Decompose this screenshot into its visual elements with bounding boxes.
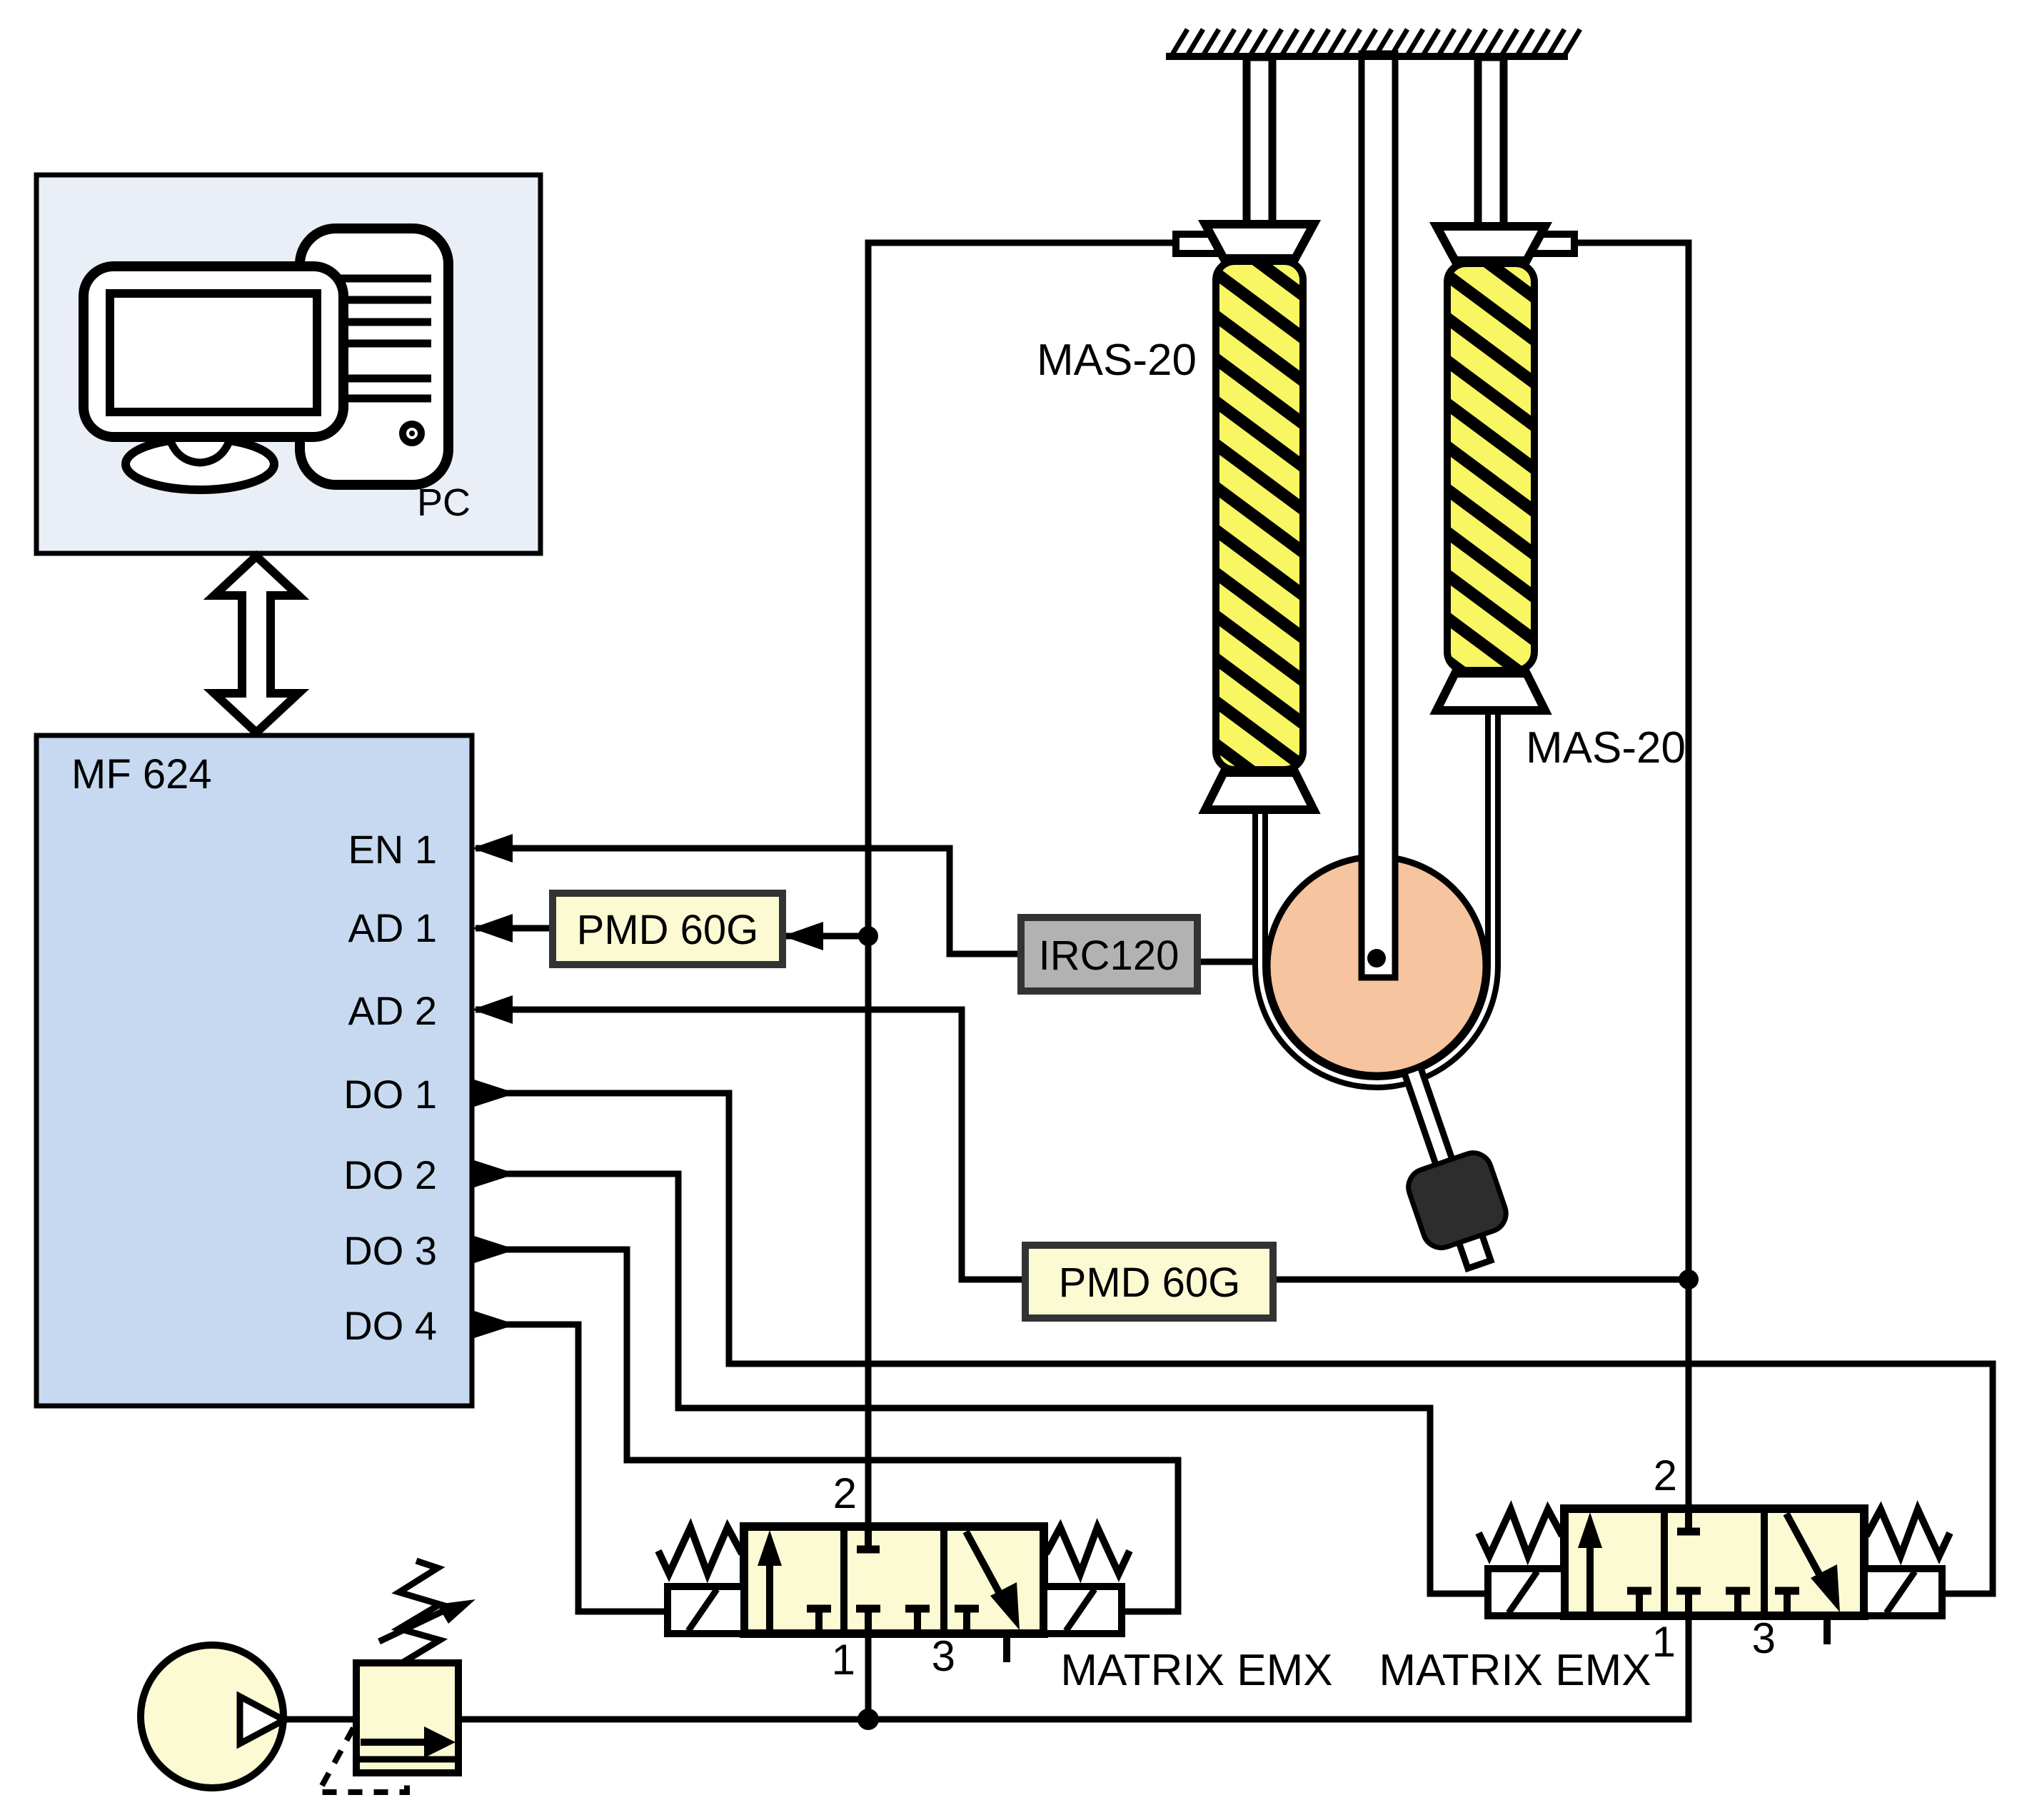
- wire: right tube tap to PMD 60G #2: [1273, 1277, 1689, 1283]
- main supply line from regulator to right valve port 1: [458, 1616, 1689, 1719]
- IRC120 encoder box: [1021, 917, 1197, 991]
- pneumatic muscle MAS-20 (right): [1437, 57, 1574, 730]
- wire: PMD 60G #2 to AD 2: [476, 1010, 1025, 1279]
- compressor: [141, 1645, 284, 1788]
- pulley disc: [1267, 857, 1486, 1075]
- svg-text:EN 1: EN 1: [348, 827, 438, 872]
- pneumatic muscle MAS-20 (left): [1176, 57, 1314, 857]
- svg-text:IRC120: IRC120: [1039, 932, 1179, 979]
- svg-text:DO 2: DO 2: [343, 1152, 437, 1197]
- pulley belt / rope around pulley: [1255, 710, 1498, 1087]
- wire DO 3 to left valve right solenoid: [472, 1250, 1178, 1612]
- MF 624 port labels EN1 AD1 AD2 DO1-DO4: [343, 827, 437, 1348]
- regulator pilot dashed line: [318, 1728, 407, 1792]
- svg-text:MATRIX EMX: MATRIX EMX: [1379, 1646, 1651, 1695]
- wire: IRC120 to pulley: [1197, 959, 1258, 965]
- wire: compressor to regulator: [283, 1716, 356, 1723]
- PC monitor base: [126, 438, 274, 490]
- wire: PMD 60G #1 to AD 1: [476, 925, 553, 932]
- valve V1 MATRIX EMX (left, 3/3 solenoid valve): [658, 1469, 1130, 1684]
- pendulum arm with mass: [1350, 992, 1520, 1278]
- svg-text:1: 1: [832, 1636, 855, 1684]
- svg-text:AD 2: AD 2: [348, 988, 438, 1033]
- svg-text:AD 1: AD 1: [348, 905, 438, 950]
- tube: right valve port 2 up to right muscle: [1565, 243, 1689, 1509]
- wire: tube tap to PMD 60G #1: [785, 933, 868, 940]
- svg-text:MAS-20: MAS-20: [1037, 336, 1197, 385]
- MF 624 I/O card box: [36, 735, 472, 1406]
- wire DO 1 to right valve right solenoid: [472, 1093, 1993, 1594]
- pressure regulator: [356, 1663, 458, 1773]
- arrowhead out of DO 1: [472, 1079, 516, 1107]
- svg-text:3: 3: [932, 1632, 955, 1680]
- PC tower (system unit) icon: [300, 228, 448, 485]
- regulator adjustment spring with arrow: [379, 1561, 476, 1663]
- PMD 60G #1 pressure sensor box: [553, 893, 783, 965]
- PC monitor neck: [167, 428, 233, 463]
- central support rod for pendulum pivot: [1362, 54, 1395, 977]
- wire DO 4 to left valve left solenoid: [472, 1324, 668, 1612]
- arrowhead out of DO 2: [472, 1160, 516, 1188]
- valve V2 MATRIX EMX (right, 3/3 solenoid valve): [1479, 1452, 1950, 1666]
- PC monitor: [84, 266, 343, 437]
- wire: left valve port 1 down to supply line: [865, 1634, 872, 1719]
- arrowhead into AD 2: [472, 995, 513, 1024]
- ceiling (fixed support): [1166, 29, 1580, 56]
- svg-text:2: 2: [833, 1469, 857, 1517]
- junction dot on right tube: [1679, 1270, 1699, 1289]
- bidirectional data arrow between PC and MF 624: [214, 556, 298, 733]
- svg-text:DO 1: DO 1: [343, 1072, 437, 1117]
- arrowhead into EN 1: [472, 834, 513, 863]
- arrowhead out of DO 4: [472, 1310, 516, 1339]
- svg-text:DO 3: DO 3: [343, 1228, 437, 1273]
- junction dot on supply line: [857, 1709, 879, 1730]
- svg-text:PC: PC: [417, 481, 471, 524]
- wire DO 2 to right valve left solenoid: [472, 1174, 1489, 1594]
- arrowhead into PMD 60G #1: [783, 922, 823, 950]
- PC enclosure box: [36, 175, 540, 553]
- junction dot on left tube: [858, 926, 878, 946]
- arrowhead out of DO 3: [472, 1235, 516, 1264]
- svg-text:MATRIX EMX: MATRIX EMX: [1060, 1646, 1332, 1695]
- svg-text:DO 4: DO 4: [343, 1303, 437, 1348]
- pivot dot: [1367, 949, 1386, 967]
- svg-text:PMD 60G: PMD 60G: [577, 907, 759, 953]
- svg-text:MAS-20: MAS-20: [1526, 723, 1686, 773]
- svg-text:MF 624: MF 624: [71, 751, 212, 798]
- svg-text:PMD 60G: PMD 60G: [1059, 1260, 1241, 1306]
- arrowhead into AD 1: [472, 914, 513, 942]
- PMD 60G #2 pressure sensor box: [1025, 1245, 1273, 1318]
- wire: IRC120 to EN 1: [476, 848, 1021, 954]
- tube: left valve port 2 up to left muscle: [868, 243, 1204, 1527]
